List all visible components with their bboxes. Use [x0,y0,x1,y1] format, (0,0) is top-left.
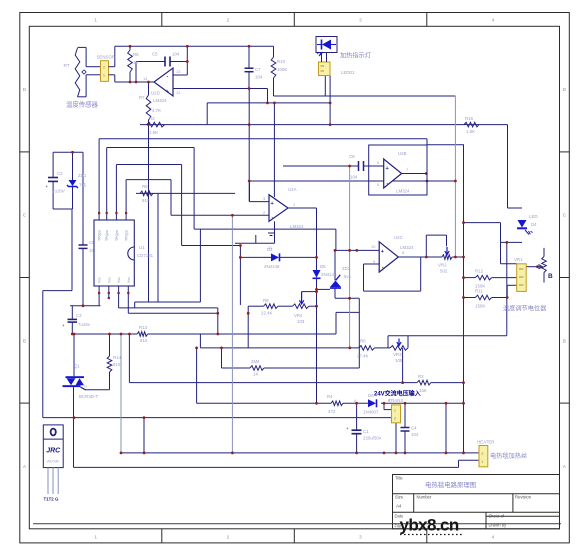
wire x267 link [267,89,269,103]
wire trans pin1 up [383,403,385,409]
diode D5 [313,270,321,278]
svg-text:CD7181: CD7181 [137,253,154,258]
capacitor C3 [62,319,77,328]
svg-text:7u16v: 7u16v [78,322,91,327]
svg-text:104: 104 [172,52,180,57]
wire trans bottom drop [395,423,397,453]
wire R15 feed [221,348,223,368]
label Q1 [74,364,98,400]
zener ZD1 [67,180,78,188]
wire y302 rail [135,301,201,303]
capacitor C5 [165,57,170,67]
svg-text:G: G [84,385,87,389]
label R9 [261,298,273,316]
wire pot zig btm stub [543,273,545,283]
svg-text:Number: Number [417,495,432,500]
wire zd1 bottom [72,186,74,209]
svg-text:C3: C3 [76,313,82,318]
svg-text:Vss: Vss [98,277,102,283]
wire C1 top [356,403,358,430]
label C2 [52,171,65,194]
svg-text:TPQpd: TPQpd [115,230,119,241]
wire LED pin B [329,76,331,125]
svg-text:14: 14 [143,76,148,81]
wire R11 pot corner [506,285,508,297]
wire C7 top stub [248,46,250,68]
LED D4 [517,220,533,235]
svg-text:ybx8.cn: ybx8.cn [400,516,459,535]
wire C4 bottom [404,431,406,453]
label C5 [152,52,180,57]
svg-text:C5: C5 [152,52,158,57]
svg-text:LED01: LED01 [341,70,355,75]
svg-text:+: + [271,201,274,207]
label R11 [475,289,485,309]
wire IC pin7 down [118,286,120,308]
wire x446 drop [445,403,447,453]
wire ZD2 bottom [335,297,359,299]
svg-text:-: - [167,74,169,80]
wire x42 left bus [42,291,44,418]
text 温度传感器 [66,100,99,109]
resistor R13 [137,332,147,337]
svg-text:R12: R12 [475,269,484,274]
svg-text:HEATER: HEATER [477,440,494,445]
svg-text:Vss: Vss [117,277,121,283]
label R6 [357,339,369,359]
wire dc rail y453 [121,452,479,454]
wire C7 U2A link [248,89,250,202]
svg-text:LM324: LM324 [290,224,304,229]
svg-text:Drawn by: Drawn by [489,523,508,528]
VR1 wiper arrow [537,265,542,269]
svg-text:1: 1 [482,460,484,464]
wire VR2 loop left [425,235,427,257]
label U2B [377,151,410,194]
wire U2A minus bus [231,215,233,453]
svg-text:U2A: U2A [288,187,297,192]
wire R9 row mid [278,305,293,307]
svg-text:B: B [548,273,553,280]
svg-text:电热毯加热丝: 电热毯加热丝 [490,452,527,460]
wire x464 bus [463,145,465,453]
op-amp U2B [369,145,427,195]
wire bus y229 [194,228,336,230]
svg-text:2: 2 [482,452,484,456]
wire pot rail y348 b [375,347,391,349]
label U2D [143,69,181,103]
text 电热毯加热丝 [490,452,527,460]
svg-text:22.4K: 22.4K [261,311,273,316]
svg-text:Title: Title [395,476,403,481]
svg-text:R5: R5 [133,52,139,57]
package Q2 JRC TO-220 [43,425,63,494]
wire long bus y124 [140,124,508,126]
svg-text:R16: R16 [465,116,474,121]
wire U2C fb up [420,257,422,291]
svg-text:温度传感器: 温度传感器 [66,100,99,109]
wire IC pin5 down [98,286,100,306]
label R8 [142,184,150,203]
op-amp U2D [154,68,173,96]
wire ZD2 btm stub [334,289,336,299]
wire LED D4 top [508,207,523,209]
label R7 [139,95,161,113]
wire bus y145 [427,144,464,146]
wire U2D out descend corner [53,208,72,210]
wire rect rail y403 c [381,402,464,404]
op-amp U2C [379,242,398,272]
wire VR2 loop right [446,235,448,246]
wire VR3 loop right [407,336,409,348]
wire x200 bus [199,229,201,302]
wire bus x170 [170,180,172,216]
svg-text:104: 104 [350,175,358,180]
label C3 [76,313,91,327]
svg-text:LM324: LM324 [396,189,410,194]
svg-text:D2: D2 [267,247,273,252]
svg-text:1: 1 [103,74,105,78]
wire R15 rail b [264,367,359,369]
svg-text:VR3: VR3 [393,352,402,357]
svg-text:LM324: LM324 [153,98,167,103]
wire R5 bottom stub [129,72,131,82]
wire R12 row [464,277,476,279]
label VR3 [393,352,403,363]
svg-text:SENSOR: SENSOR [97,55,116,60]
wire triac T2 chain [73,387,75,467]
capacitor C6 [79,245,88,248]
triac Q1 [63,376,86,390]
wire C7 bottom stub [248,72,250,89]
wire IC pin3 bus [116,164,181,166]
wire R3 rail b [431,382,464,384]
wire R8 bus [136,192,235,194]
wire IC pin1 up [98,139,100,220]
svg-text:910: 910 [142,198,150,203]
wire C5 corner [135,62,137,83]
svg-text:T1T2 G: T1T2 G [44,497,59,502]
wire C6 top [82,152,84,245]
label U1 [137,245,154,258]
wire IC pin down bus1 [119,307,218,309]
wire U2A plus corner [249,181,251,202]
label ZD1 [78,173,87,188]
wire D5 to rail403 [316,278,318,403]
label U2C [371,235,414,264]
svg-text:7v5: 7v5 [79,183,87,188]
wire R9 row right [309,305,317,307]
svg-text:R10: R10 [277,59,286,64]
wire full-width bottom rail [33,523,561,525]
wire R11 row [464,297,476,299]
label C8 [349,154,358,180]
wire gnd rail y467 [74,466,459,468]
wire U2A plus stub [250,201,270,203]
svg-text:R8: R8 [142,184,148,189]
wire long bus y181 [250,180,456,182]
svg-text:U1: U1 [139,245,145,250]
svg-text:BCR3D-T: BCR3D-T [79,394,98,399]
resistor R10 [271,57,276,78]
svg-text:910: 910 [113,362,121,367]
svg-text:VR4: VR4 [294,313,303,318]
resistor R15 [250,366,264,371]
VR4 preset [293,292,309,309]
svg-text:R3: R3 [418,374,424,379]
wire bus y245 stub [182,245,241,247]
label RT [64,63,70,68]
wire R10 bottom stub [273,78,275,96]
svg-text:ZD2: ZD2 [342,266,351,271]
svg-text:+: + [381,249,384,255]
connector HEATER [479,446,488,467]
svg-text:LED: LED [529,214,538,219]
svg-text:TPQpd: TPQpd [98,230,102,241]
wire C3 bottom [71,322,73,334]
svg-text:D4: D4 [531,222,537,227]
potentiometer VR1 [517,264,527,292]
svg-text:+: + [386,166,389,172]
wire U2A pin11 drop [274,221,276,243]
U2A pin11 mark [268,233,274,250]
label R15 [251,359,260,377]
svg-text:+: + [46,184,49,189]
zener ZD2 [330,275,341,288]
resistor R11 [475,295,491,300]
svg-text:Vss: Vss [127,277,131,283]
wire zd1 stub [72,152,74,180]
wire R16 descend [507,125,509,208]
wire x336 jog [335,312,337,334]
resistor R8 [140,191,153,196]
wire ZD2 top [334,250,336,280]
svg-text:220u/50v: 220u/50v [363,436,382,441]
svg-text:C7: C7 [255,67,261,72]
wire C5 feedback left [136,61,165,63]
svg-text:D5: D5 [320,264,326,269]
svg-text:Vss: Vss [107,277,111,283]
wire R15 rail [222,367,251,369]
capacitor C8 [359,161,364,171]
wire pot x500 bus [500,223,502,264]
svg-text:C4: C4 [411,426,417,431]
wire bus y103 [207,102,330,104]
wire U2C feedback bottom [364,290,421,292]
svg-text:Q1: Q1 [74,364,80,369]
wire zener rail [53,151,83,153]
svg-text:R4: R4 [327,394,333,399]
wire x402 link [402,348,404,383]
svg-text:104: 104 [411,432,419,437]
wire R5 top stub [129,46,131,50]
svg-text:1: 1 [394,409,396,413]
svg-text:VR1: VR1 [514,257,523,262]
wire R10 bottom bus [274,95,456,97]
wire LED D4 rail [464,222,501,224]
wire trans pin1 stub [384,409,392,411]
svg-text:13: 13 [176,69,181,74]
svg-text:104: 104 [255,75,263,80]
resistor R7 [146,95,151,120]
label C4 [411,426,419,438]
svg-text:100K: 100K [277,67,287,72]
svg-text:2: 2 [394,417,396,421]
svg-text:R2: R2 [149,116,155,121]
svg-text:5v1: 5v1 [344,274,352,279]
wire triac gate [85,389,110,391]
capacitor C2 [46,178,59,190]
wire IC pin2 bus [107,147,194,149]
title block text [395,476,532,529]
label R10 [277,59,287,72]
wire x144 link [143,418,145,453]
svg-text:TPQpd: TPQpd [125,230,129,241]
label D5 [320,264,337,277]
capacitor C1 [346,426,362,434]
label ZD2 [342,266,352,279]
svg-text:B: B [563,338,566,343]
label C1 [363,429,382,441]
wire rect rail y403 b [343,402,368,404]
capacitor C4 [401,428,410,432]
svg-text:A4: A4 [396,504,402,509]
wire y312 link [336,311,359,313]
label R4 [327,394,336,414]
svg-text:R14: R14 [113,355,122,360]
svg-text:1K: 1K [133,60,138,65]
svg-text:1.5K: 1.5K [149,130,158,135]
text 24V input [374,390,421,398]
svg-text:7u16V: 7u16V [52,189,65,194]
wire pot zig top stub [543,248,545,257]
wire triac top feed [73,334,75,376]
LED indicator D1 [316,37,337,57]
svg-text:2N4148: 2N4148 [264,264,280,269]
wire VR3 loop long [388,335,507,337]
svg-text:502: 502 [440,269,448,274]
svg-text:24V交流电压输入: 24V交流电压输入 [374,390,421,398]
wire x129 bus [128,334,130,383]
svg-text:12: 12 [176,90,181,95]
wire R10 top stub [273,46,275,57]
wire U2C minus stub [364,263,380,265]
wire IC pin4 bus [126,179,171,181]
IC U1 [94,220,134,286]
wire IC pin down bus2 [128,312,218,314]
wire C8 drop [349,166,351,348]
svg-text:Size: Size [395,495,404,500]
wire pot loop x506 [506,242,508,335]
VR3 preset [390,339,408,351]
label VR1 [514,257,553,280]
wire sensor pin2 down [114,75,116,82]
wire pot wiper stub [526,266,537,268]
wire R14 top [109,334,111,356]
svg-text:-: - [272,215,274,221]
label HEATER [477,440,494,445]
svg-text:+: + [166,89,169,95]
wire R14 gate link [109,372,111,390]
wire IC pin6 down [108,286,110,298]
svg-text:A: A [563,464,566,469]
wire U2A pin11 stub [235,242,275,244]
diode D6 [368,399,377,407]
diode D2 [271,253,280,261]
wire C8 input [283,165,359,167]
wire bus x181 [181,165,183,246]
svg-text:910: 910 [140,338,148,343]
thermistor RT [75,47,100,96]
connector SENSOR [101,61,115,82]
op-amp U2A [269,195,288,222]
wire C8 to U2B [364,165,384,167]
svg-text:C2: C2 [57,171,63,176]
wire pot rail y348 [200,347,358,349]
wire x134 jog [134,302,136,308]
label D6 [354,393,391,415]
watermark ybx8.cn [400,516,465,535]
wire IC pin8 down [127,286,129,313]
svg-text:10: 10 [371,244,376,249]
wire top rail [115,45,274,47]
wire U2C output [398,256,442,258]
wire C1 bottom [356,434,358,453]
svg-text:105: 105 [395,358,403,363]
svg-text:1K: 1K [253,372,258,377]
resistor R4 [331,401,343,406]
title block [393,475,560,529]
wire U2A out chain [316,208,318,270]
wire LED D4 bottom [501,241,523,243]
label C6 [89,240,97,253]
wire U2A top feed [273,103,275,197]
wire C5 feedback right [170,61,187,63]
svg-text:C1: C1 [363,429,369,434]
resistor R6 [359,346,375,351]
svg-text:103: 103 [297,319,305,324]
wire x335 corner [335,229,337,250]
label VR2 [438,263,448,274]
wire C2 top [52,152,54,177]
resistor R9 [264,304,278,309]
wire C4 top [404,403,406,427]
svg-text:472: 472 [328,409,336,414]
svg-text:2N4148: 2N4148 [321,272,337,277]
svg-text:Revision: Revision [515,495,532,500]
wire pot top feed [501,263,517,265]
VR2 preset [442,247,452,259]
label U2A [263,187,304,229]
wire U2C minus drop [363,264,365,291]
svg-text:加热指示灯: 加热指示灯 [340,52,371,60]
wire VR4 wiper top [302,291,317,293]
wire heater corner [458,460,460,467]
wire U2D output [115,81,154,83]
svg-text:VR2: VR2 [438,263,447,268]
svg-text:R9: R9 [263,298,269,303]
wire C3 top [71,306,73,320]
label TRANS [389,398,404,403]
label LED01 [341,70,355,75]
wire LED pin A [324,76,326,97]
wire R3 rail [129,382,417,384]
svg-text:Sheet of: Sheet of [489,514,505,519]
svg-text:U2B: U2B [398,151,407,156]
wire bus x158 [157,193,159,302]
wire x200 lower [199,334,201,348]
svg-text:1.5K: 1.5K [466,129,475,134]
